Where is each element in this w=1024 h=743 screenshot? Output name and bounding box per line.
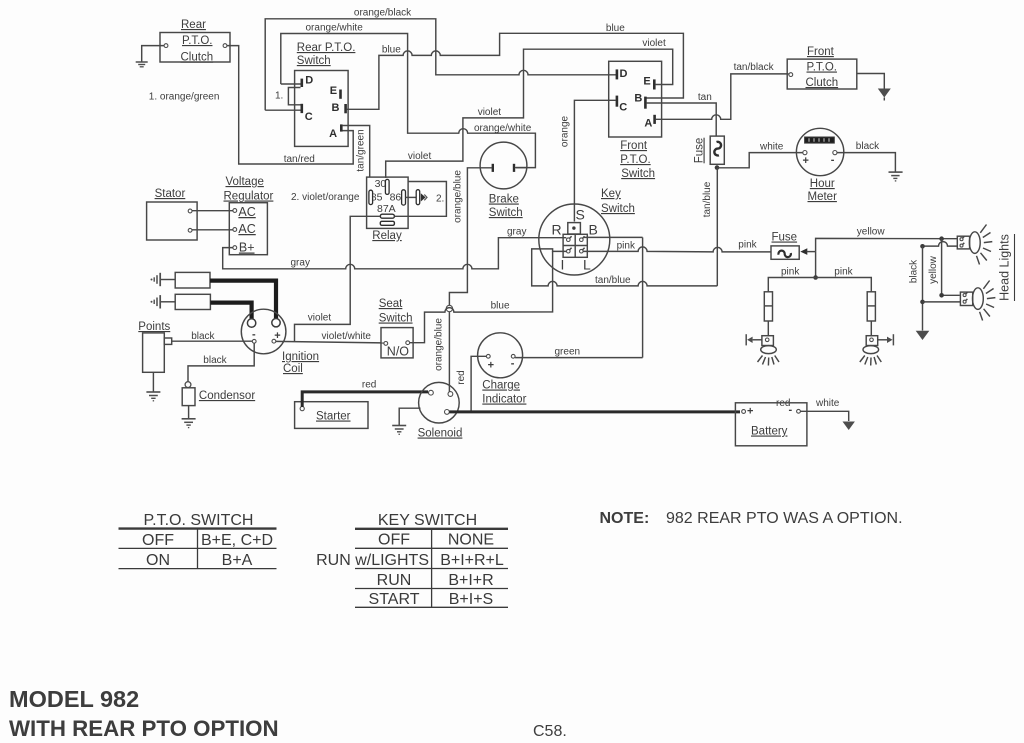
svg-text:blue: blue — [382, 45, 401, 56]
starter box — [295, 402, 368, 429]
svg-text:-: - — [789, 404, 793, 416]
svg-text:violet: violet — [642, 38, 666, 49]
svg-text:Charge: Charge — [482, 380, 520, 392]
wire blue : seat switch to key I — [410, 251, 553, 342]
svg-text:Rear P.T.O.: Rear P.T.O. — [297, 42, 356, 54]
svg-text:Switch: Switch — [601, 203, 635, 215]
svg-text:C: C — [619, 102, 627, 114]
svg-text:pink: pink — [781, 267, 800, 278]
svg-text:black: black — [203, 355, 227, 366]
svg-text:Key: Key — [601, 188, 621, 200]
svg-text:tan: tan — [698, 92, 712, 103]
points box — [138, 321, 171, 372]
svg-text:N/O: N/O — [387, 345, 410, 359]
svg-text:orange/white: orange/white — [306, 23, 364, 34]
wire orange/black : rear C up, across top, down to front D — [265, 19, 616, 110]
wire headlight 1 return — [923, 242, 958, 246]
svg-text:Voltage: Voltage — [226, 176, 264, 188]
wire gray : regulator B+ to key switch R — [223, 238, 567, 269]
ground (condensor) — [182, 406, 196, 428]
svg-text:Switch: Switch — [489, 207, 523, 219]
svg-text:C58.: C58. — [533, 723, 567, 740]
connector on orange/blue wire — [446, 305, 452, 311]
svg-text:Switch: Switch — [379, 313, 413, 325]
svg-text:Solenoid: Solenoid — [418, 428, 463, 440]
thick wire spark plug 1 to coil — [210, 281, 276, 322]
svg-text:P.T.O.: P.T.O. — [807, 62, 837, 74]
hour meter — [796, 128, 843, 203]
svg-text:Regulator: Regulator — [224, 191, 274, 203]
battery — [735, 403, 807, 446]
svg-text:P.T.O.: P.T.O. — [182, 35, 212, 47]
wire pink right branch — [816, 278, 872, 292]
svg-text:P.T.O.: P.T.O. — [620, 154, 650, 166]
svg-text:Starter: Starter — [316, 411, 351, 423]
svg-text:Stator: Stator — [155, 188, 186, 200]
NOTE text — [600, 510, 903, 527]
wire black : hour meter to ground — [837, 153, 895, 172]
svg-text:B: B — [589, 222, 598, 238]
svg-text:NOTE:: NOTE: — [600, 510, 650, 527]
svg-text:Condensor: Condensor — [199, 390, 255, 402]
svg-text:blue: blue — [606, 23, 625, 34]
wire fuse right vertical — [815, 252, 817, 278]
wire red : charge indicator to battery run — [471, 356, 486, 410]
svg-text:B: B — [634, 92, 642, 104]
svg-text:Switch: Switch — [621, 168, 655, 180]
svg-text:D: D — [305, 75, 313, 87]
relay pin 85 bar — [369, 190, 373, 204]
svg-text:Fuse: Fuse — [694, 138, 706, 164]
svg-text:red: red — [456, 370, 467, 384]
svg-text:B+E, C+D: B+E, C+D — [201, 532, 273, 549]
pin A (rear) — [329, 124, 341, 140]
svg-text:-: - — [511, 358, 515, 370]
svg-text:A: A — [329, 128, 337, 140]
svg-text:A: A — [644, 118, 652, 130]
voltage regulator box — [224, 176, 274, 255]
svg-text:Front: Front — [807, 46, 835, 58]
svg-text:violet: violet — [408, 151, 432, 162]
indicator lamp (right) — [860, 334, 894, 365]
fuse F2 (pink circuit) — [771, 232, 799, 260]
pin B (rear) — [332, 102, 346, 114]
svg-text:L: L — [583, 257, 591, 273]
svg-text:2. violet/orange: 2. violet/orange — [291, 192, 360, 203]
svg-text:KEY SWITCH: KEY SWITCH — [378, 512, 477, 529]
svg-text:START: START — [369, 591, 420, 608]
brake switch right pin stub — [515, 167, 527, 169]
headlight 1 lamp — [969, 225, 992, 265]
pin E (front) — [643, 75, 654, 89]
wire tan/red : clutch right to rear switch pin A lower stub — [227, 46, 353, 164]
svg-text:P.T.O. SWITCH: P.T.O. SWITCH — [144, 512, 254, 529]
svg-text:RUN: RUN — [377, 572, 412, 589]
junction dot pink split — [813, 275, 818, 280]
svg-text:Indicator: Indicator — [482, 394, 526, 406]
wire blue : rear B to front B — [347, 33, 684, 109]
wire key B to green vertical — [583, 236, 643, 238]
svg-text:orange/blue: orange/blue — [434, 318, 445, 371]
svg-text:violet: violet — [308, 313, 332, 324]
wire white : battery minus to ground — [800, 411, 848, 421]
svg-text:violet: violet — [478, 107, 502, 118]
spark plug 1 — [151, 272, 211, 288]
charge indicator — [478, 333, 527, 406]
wire pink : key L to fuse — [583, 247, 771, 252]
svg-text:Relay: Relay — [372, 230, 402, 242]
svg-text:white: white — [759, 142, 784, 153]
svg-text:MODEL 982: MODEL 982 — [9, 686, 139, 712]
svg-text:Hour: Hour — [810, 178, 835, 190]
relay pin 30 bar — [385, 179, 389, 194]
svg-text:pink: pink — [834, 267, 853, 278]
svg-text:B+A: B+A — [222, 552, 253, 569]
wire solenoid to ground — [399, 408, 420, 425]
svg-text:pink: pink — [738, 240, 757, 251]
wire violet/white : coil plus to seat switch — [276, 341, 384, 343]
svg-text:2.: 2. — [436, 194, 444, 205]
ground (hour meter) — [889, 172, 903, 181]
ground (rear PTO clutch) — [136, 62, 148, 67]
wire yellow vertical to headlight 2 — [942, 239, 960, 296]
pin D (front) — [617, 68, 628, 80]
svg-text:Head Lights: Head Lights — [998, 234, 1012, 301]
svg-text:pink: pink — [617, 241, 636, 252]
svg-text:I: I — [561, 257, 565, 273]
svg-text:Switch: Switch — [297, 55, 331, 67]
svg-text:E: E — [330, 85, 337, 97]
wire tan/blue horizontal to key switch I branch — [532, 249, 718, 286]
relay pin 86 bar — [402, 190, 406, 205]
headlight 2 lamp — [973, 281, 996, 321]
junction dot black top — [920, 244, 925, 249]
wire resistor to left lamp — [767, 321, 769, 336]
svg-text:1.: 1. — [275, 91, 283, 102]
rear PTO switch box — [295, 42, 356, 146]
svg-text:RUN w/LIGHTS: RUN w/LIGHTS — [316, 552, 429, 569]
svg-text:NONE: NONE — [448, 532, 494, 549]
svg-text:OFF: OFF — [378, 532, 410, 549]
svg-text:Fuse: Fuse — [772, 232, 798, 244]
svg-text:B: B — [332, 102, 340, 114]
wire green vertical down to green run — [642, 237, 644, 357]
relay 87A contact bars — [380, 214, 394, 225]
svg-text:violet/white: violet/white — [322, 331, 372, 342]
svg-text:+: + — [747, 406, 753, 418]
ground (points) — [146, 372, 160, 401]
svg-text:black: black — [191, 331, 215, 342]
wire loop relay 87A output — [394, 182, 446, 217]
svg-text:B+: B+ — [239, 241, 255, 255]
svg-text:red: red — [362, 380, 376, 391]
svg-text:tan/red: tan/red — [284, 154, 315, 165]
front PTO clutch box — [787, 46, 857, 89]
svg-text:Coil: Coil — [283, 363, 303, 375]
svg-text:Meter: Meter — [808, 191, 838, 203]
wire yellow : fuse up and right to headlight 1 — [816, 238, 958, 251]
thick wire red : starter to solenoid — [302, 392, 428, 407]
ground (battery, arrow type) — [843, 422, 855, 431]
svg-text:+: + — [803, 155, 809, 167]
svg-text:ON: ON — [146, 552, 170, 569]
wire brake left pin down to solenoid (orange/blue) — [449, 168, 492, 392]
wire front clutch right to ground — [857, 74, 885, 89]
junction dot yellow lower — [939, 293, 944, 298]
thick wire spark plug 2 to coil — [210, 303, 251, 322]
solenoid — [418, 382, 463, 439]
wire orange/white : rear D up, across, down, to brake switch right pin — [281, 34, 536, 168]
junction dot black lower — [920, 300, 925, 305]
svg-text:AC: AC — [238, 205, 255, 219]
ground (headlights, arrow type) — [916, 331, 930, 340]
svg-text:yellow: yellow — [928, 255, 939, 284]
svg-text:tan/black: tan/black — [734, 62, 775, 73]
svg-text:Ignition: Ignition — [282, 351, 319, 363]
resistor (right lamp) — [867, 292, 875, 321]
svg-text:orange/black: orange/black — [354, 8, 412, 19]
svg-text:E: E — [643, 75, 650, 87]
svg-text:C: C — [305, 111, 313, 123]
brake switch — [480, 142, 527, 219]
key switch table — [316, 512, 508, 608]
fuse F1 (vertical, tan circuit) — [710, 136, 724, 164]
svg-text:1. orange/green: 1. orange/green — [149, 92, 220, 103]
pin C (rear) — [265, 104, 313, 123]
svg-text:86: 86 — [390, 192, 402, 204]
pin D (rear) — [281, 75, 313, 88]
ignition coil — [241, 309, 319, 375]
svg-text:87A: 87A — [377, 203, 396, 215]
svg-text:Clutch: Clutch — [806, 77, 839, 89]
junction dot yellow top — [939, 236, 944, 241]
stator box — [147, 188, 198, 240]
wire black : points to coil minus — [172, 340, 253, 342]
wire tan/green : rear A to relay top — [342, 126, 370, 178]
svg-text:Battery: Battery — [751, 426, 788, 438]
headlight 1 socket — [957, 236, 969, 249]
svg-text:black: black — [856, 141, 880, 152]
svg-text:AC: AC — [238, 222, 255, 236]
svg-text:Points: Points — [138, 321, 170, 333]
rear PTO clutch box — [160, 19, 230, 64]
wire stator AC1 — [192, 210, 233, 212]
svg-text:yellow: yellow — [857, 227, 886, 238]
seat switch — [379, 298, 413, 359]
svg-text:Rear: Rear — [181, 19, 206, 31]
svg-text:B+I+R: B+I+R — [448, 572, 493, 589]
svg-text:D: D — [620, 68, 628, 80]
svg-text:982 REAR PTO WAS A OPTION.: 982 REAR PTO WAS A OPTION. — [666, 510, 903, 527]
svg-text:30: 30 — [375, 178, 387, 190]
svg-text:Brake: Brake — [489, 194, 519, 206]
svg-text:tan/green: tan/green — [356, 129, 367, 171]
wire violet : front E up, across left, down to relay pin 30 — [386, 49, 673, 178]
wire clutch left to ground — [142, 46, 164, 62]
svg-text:tan/blue: tan/blue — [595, 275, 631, 286]
pin E (rear, unused) — [330, 85, 341, 99]
svg-text:green: green — [555, 347, 581, 358]
svg-text:orange/white: orange/white — [474, 123, 532, 134]
svg-text:gray: gray — [291, 258, 310, 269]
wire orange : front C down to key switch S — [574, 100, 616, 221]
indicator lamp (left) — [746, 334, 779, 365]
wire white : fuse junction to hour meter — [717, 153, 803, 168]
jumper bracket 1. between D and C — [275, 88, 301, 105]
wire stator AC2 — [192, 229, 233, 231]
svg-text:-: - — [252, 329, 256, 341]
spark plug 2 — [151, 294, 211, 309]
svg-text:blue: blue — [491, 301, 510, 312]
svg-text:white: white — [815, 398, 840, 409]
svg-text:Seat: Seat — [379, 298, 403, 310]
svg-text:-: - — [831, 154, 835, 166]
pin C (front) — [617, 96, 627, 114]
wire violet : relay 87A left down to violet/white junction — [295, 216, 381, 341]
wire black vertical to ground — [922, 246, 924, 330]
key switch — [539, 188, 635, 275]
wire pink left branch — [768, 278, 815, 292]
wire tan/black : front A to front clutch — [655, 74, 788, 119]
wire headlight 2 return — [923, 301, 961, 303]
svg-text:Clutch: Clutch — [181, 52, 214, 64]
svg-text:orange: orange — [560, 115, 571, 147]
wire tan : front B to fuse top — [646, 103, 716, 136]
wire black : coil minus down to condensor — [188, 343, 254, 381]
PTO switch table — [119, 512, 277, 569]
svg-text:R: R — [552, 222, 562, 238]
svg-text:+: + — [488, 360, 494, 372]
resistor (left lamp) — [764, 292, 772, 321]
svg-text:orange/blue: orange/blue — [453, 170, 464, 223]
svg-text:OFF: OFF — [142, 532, 174, 549]
front PTO switch box — [609, 61, 662, 180]
wire tan/blue vertical : fuse junction down to tan/blue run — [716, 168, 718, 286]
junction dot below fuse — [715, 165, 720, 170]
svg-text:S: S — [576, 207, 585, 223]
svg-text:WITH REAR PTO OPTION: WITH REAR PTO OPTION — [9, 716, 279, 741]
ground (front PTO clutch, arrow type) — [878, 89, 891, 101]
svg-text:B+I+R+L: B+I+R+L — [440, 552, 504, 569]
pin B (front) — [634, 92, 645, 108]
wire resistor to right lamp — [870, 321, 872, 336]
svg-text:B+I+S: B+I+S — [449, 591, 493, 608]
svg-text:gray: gray — [507, 227, 526, 238]
thick wire red : solenoid to battery — [449, 410, 740, 413]
relay coil arrow symbol — [406, 190, 428, 205]
pin A (front) — [644, 115, 654, 130]
fuse arrow — [800, 248, 815, 255]
headlight 2 socket — [960, 292, 972, 305]
svg-text:tan/blue: tan/blue — [702, 181, 713, 217]
svg-text:black: black — [909, 259, 920, 283]
relay box — [367, 177, 409, 242]
ground (solenoid) — [392, 426, 406, 435]
svg-text:Front: Front — [620, 140, 648, 152]
wire green : charge indicator to key B vertical — [515, 357, 643, 359]
label Head Lights (vertical) — [998, 234, 1015, 301]
condensor — [182, 382, 255, 406]
